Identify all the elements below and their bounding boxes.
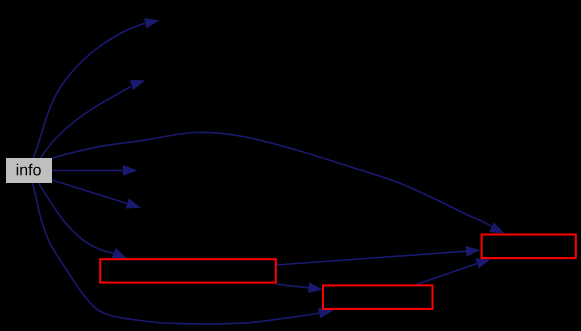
arrowhead into box2 left (308, 282, 323, 293)
arrowhead into box2 bottom (318, 308, 333, 319)
wire info to node B (41, 87, 131, 159)
wire box2 to box3 (417, 263, 478, 284)
arrowhead into box3 left (466, 246, 481, 257)
node B arrowhead (130, 80, 145, 90)
wire box1 to box2 (276, 284, 309, 288)
wire info to box3 (52, 132, 492, 226)
node info label (17, 164, 41, 176)
node info box (6, 158, 52, 183)
wire info to node D (52, 180, 128, 204)
wire info to node A (33, 23, 145, 158)
arrowhead into box1 top (112, 248, 127, 259)
wire box1 to box3 (276, 251, 467, 265)
arrowhead into box3 top (489, 222, 504, 233)
node box1 (100, 259, 276, 282)
node box3 (482, 235, 576, 259)
node A arrowhead (144, 18, 159, 28)
node D arrowhead (126, 198, 141, 208)
wire info to node C (52, 169, 125, 171)
arrowhead into box3 bottom (475, 258, 491, 268)
wire info to box1 (39, 183, 114, 253)
node box2 (323, 285, 433, 309)
node C arrowhead (123, 165, 138, 176)
wire info to box2 (32, 183, 319, 324)
